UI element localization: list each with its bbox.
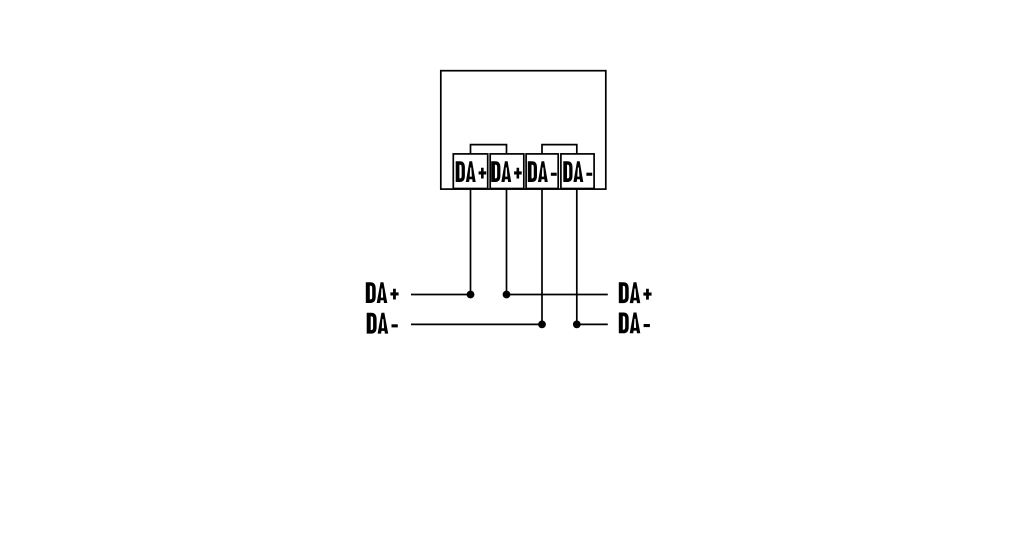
jumper bracket T3-T4 <box>542 145 577 154</box>
label T2 DA+ <box>491 161 522 182</box>
label right DA- <box>619 313 650 334</box>
wire DA+ right <box>507 294 608 296</box>
terminal T1 box <box>453 154 487 189</box>
label left DA- <box>367 313 398 334</box>
label right DA+ <box>619 282 652 303</box>
wire T1 down <box>470 189 472 294</box>
junction dot T1/DA+ <box>467 291 475 299</box>
device box <box>441 71 606 189</box>
wire DA- right <box>577 323 608 325</box>
terminal T4 box <box>561 154 594 189</box>
wire T3 down <box>541 189 543 324</box>
wire T4 down <box>576 189 578 324</box>
junction dot T3/DA- <box>538 321 546 329</box>
label T4 DA- <box>563 161 592 182</box>
label T3 DA- <box>528 161 557 182</box>
label left DA+ <box>366 282 399 303</box>
junction dot T2/DA+ <box>503 291 511 299</box>
wire DA+ left <box>411 294 471 296</box>
junction dot T4/DA- <box>573 321 581 329</box>
terminal T2 box <box>490 154 524 189</box>
jumper bracket T1-T2 <box>471 145 507 154</box>
terminal T3 box <box>526 154 558 189</box>
wire DA- left <box>411 323 542 325</box>
label T1 DA+ <box>456 161 487 182</box>
wire T2 down <box>506 189 508 294</box>
